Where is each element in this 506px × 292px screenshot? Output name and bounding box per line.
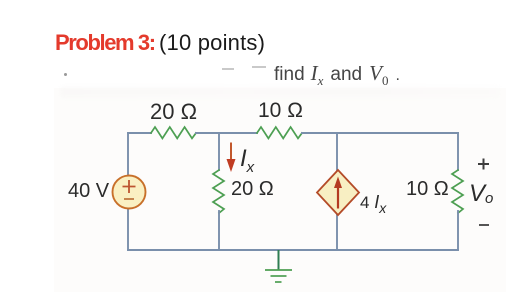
label minus xyxy=(479,224,489,226)
wire bottom xyxy=(128,249,458,251)
title xyxy=(55,30,265,56)
ground xyxy=(278,250,280,270)
resistor R2 10ohm horizontal xyxy=(257,127,302,138)
wire dependent source branch top xyxy=(336,133,338,171)
Ix current arrow xyxy=(230,143,232,162)
label 10ohm top xyxy=(258,99,303,123)
resistor R4 10ohm vertical xyxy=(452,170,463,213)
scanned figure background xyxy=(54,88,506,292)
resistor R3 20ohm vertical xyxy=(213,170,224,213)
label Vo xyxy=(469,180,493,208)
label 40V xyxy=(68,180,109,203)
faint scan artifact band xyxy=(60,86,500,98)
wire right vertical bottom xyxy=(457,211,459,250)
voltage source V1 40V xyxy=(113,176,146,209)
wire middle branch bottom xyxy=(218,211,220,250)
wire right vertical top xyxy=(457,133,459,170)
wire left vertical bottom xyxy=(127,209,129,250)
label 10ohm right xyxy=(406,178,449,201)
label plus xyxy=(478,159,489,170)
prompt line xyxy=(274,61,400,89)
label 20ohm vertical xyxy=(231,178,274,201)
wire top right segment xyxy=(302,132,458,134)
dependent current source 4Ix xyxy=(317,170,359,215)
wire middle branch top xyxy=(218,133,220,170)
label 20ohm top xyxy=(150,99,197,125)
wire left vertical top xyxy=(127,133,129,175)
resistor R1 20ohm horizontal xyxy=(151,127,196,138)
wire dependent source branch bottom xyxy=(336,214,338,250)
wire top left segment xyxy=(128,132,151,134)
label 4Ix xyxy=(360,192,386,216)
label Ix xyxy=(240,145,254,176)
wire top middle segment xyxy=(196,132,257,134)
erased text remnants xyxy=(222,68,234,70)
